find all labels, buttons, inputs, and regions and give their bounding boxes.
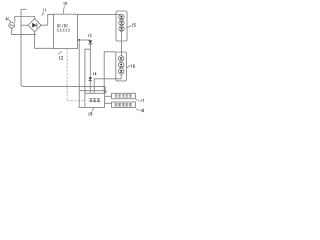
LED 2: [119, 20, 124, 25]
LED module 15 box: [116, 11, 127, 41]
wire bridge bottom stub to converter: [35, 32, 54, 49]
light sensor box: [112, 102, 136, 107]
LED 4: [118, 56, 124, 62]
junction dot: [78, 39, 80, 41]
AC sine symbol: [10, 25, 14, 26]
label 18: [136, 109, 144, 112]
bridge diode triangle: [32, 23, 36, 28]
bridge diode bar: [36, 23, 38, 28]
node tick top-left: [21, 8, 27, 10]
wire LED chain to module2: [121, 31, 123, 56]
motion sensor box: [112, 93, 136, 98]
wire branch down to control bottom: [79, 40, 85, 107]
label 15: [127, 24, 135, 28]
label 19: [89, 108, 94, 116]
wire bridge minus: [21, 24, 28, 26]
wire LED return: [94, 74, 121, 93]
plus rail: [77, 13, 121, 15]
DC/DC converter 12 box: [53, 14, 77, 48]
LED 5: [118, 62, 124, 68]
wire bridge plus to converter: [41, 14, 53, 25]
label 10: [63, 2, 66, 14]
LED 3: [119, 26, 124, 31]
DC/DC text: [57, 24, 70, 31]
wire diode chain: [89, 44, 91, 77]
label 17: [136, 99, 144, 102]
wire AC top lead: [15, 17, 35, 23]
LED module 16 box: [116, 52, 127, 81]
control unit box: [85, 93, 105, 107]
label 13: [88, 34, 90, 37]
label 16: [127, 64, 135, 67]
wire minus output: [77, 39, 90, 41]
wire bottom rail A: [23, 86, 105, 93]
wire diode 14 down: [89, 81, 91, 94]
wire AC bottom lead: [12, 28, 36, 34]
LED 1: [119, 14, 124, 19]
diode 14: [89, 77, 93, 80]
AC source label: [6, 17, 11, 23]
AC source circle: [9, 22, 15, 28]
dashed control line: [67, 49, 85, 101]
wire module2 feed left: [104, 52, 116, 94]
wire sensor2 stub: [105, 102, 112, 104]
label 11: [42, 8, 46, 15]
control unit text: [89, 98, 92, 102]
diode 13: [88, 40, 92, 44]
label 12: [58, 51, 63, 59]
label 14: [93, 72, 95, 75]
wire left return rail: [21, 9, 23, 86]
bridge rectifier 11: [28, 19, 41, 32]
wire sensor1 stub: [105, 95, 112, 97]
wire branch to control top: [85, 49, 90, 93]
wire rail B: [79, 91, 106, 94]
LED 6: [118, 69, 124, 75]
